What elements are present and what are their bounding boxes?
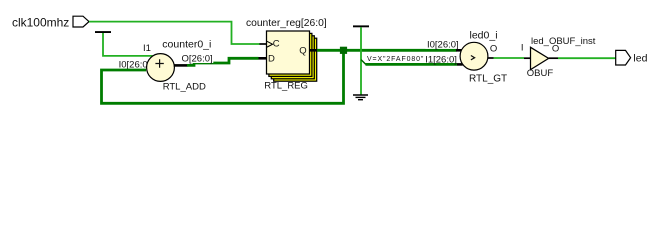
wire O to D (187, 58, 259, 65)
svg-text:led: led (633, 53, 647, 65)
svg-text:RTL_REG: RTL_REG (264, 81, 308, 92)
pin stub I0 comparator (456, 49, 462, 52)
wire constant bus to I1 (366, 63, 458, 66)
svg-text:I: I (521, 43, 524, 54)
input port clk100mhz (73, 16, 89, 27)
svg-text:C: C (273, 38, 280, 49)
svg-text:led_OBUF_inst: led_OBUF_inst (531, 36, 596, 47)
pin stub O adder (174, 64, 188, 67)
svg-text:led0_i: led0_i (470, 30, 498, 42)
greater-than mark (471, 56, 475, 60)
svg-text:RTL_ADD: RTL_ADD (163, 81, 206, 92)
buffer led_OBUF_inst OBUF (531, 47, 549, 69)
value label V=X"2FAF080" (366, 55, 426, 63)
svg-text:O: O (490, 44, 497, 55)
svg-text:I1: I1 (143, 43, 151, 54)
wire feedback bus (102, 50, 344, 103)
svg-text:OBUF: OBUF (527, 68, 554, 79)
comparator led0_i RTL_GT (460, 42, 488, 70)
pin stub O obuf (549, 57, 558, 59)
register counter_reg stack (267, 31, 317, 81)
svg-text:counter_reg[26:0]: counter_reg[26:0] (246, 18, 327, 29)
svg-text:I1[26:0]: I1[26:0] (425, 54, 457, 65)
wire led net (494, 57, 525, 59)
output port led (616, 50, 631, 65)
pin stub O comparator (488, 57, 494, 59)
svg-text:O[26:0]: O[26:0] (182, 53, 213, 64)
wire led out (558, 57, 616, 59)
svg-text:V=X"2FAF080": V=X"2FAF080" (367, 56, 424, 63)
wire Q bus (317, 49, 457, 52)
net label I0[26:0] (117, 60, 152, 71)
pin stub I1 comparator (457, 63, 463, 66)
power VCC const (353, 25, 369, 27)
power VCC const1 (95, 31, 111, 33)
svg-text:D: D (268, 53, 275, 64)
ground (353, 95, 368, 100)
pin stub D (259, 57, 267, 60)
svg-text:Q: Q (299, 46, 306, 57)
svg-text:clk100mhz: clk100mhz (12, 15, 69, 29)
svg-text:counter0_i: counter0_i (162, 39, 211, 51)
pin stub I obuf (524, 57, 531, 59)
bus tap diagonal (361, 60, 366, 65)
pin stub C (260, 43, 267, 45)
net label I0[26:0] comparator (426, 40, 459, 51)
junction (340, 47, 347, 54)
clock pin triangle (267, 41, 273, 47)
svg-text:I0[26:0]: I0[26:0] (427, 40, 459, 51)
plus sign (155, 59, 163, 67)
wire const1 vertical (103, 33, 153, 56)
svg-text:O: O (552, 43, 559, 54)
pin stub Q (310, 49, 318, 52)
wire clk net (89, 22, 260, 44)
adder counter0_i RTL_ADD (147, 54, 175, 82)
net label O[26:0] (180, 53, 213, 64)
net label I1[26:0] comparator (424, 54, 459, 66)
svg-text:RTL_GT: RTL_GT (469, 74, 507, 85)
wire const vertical (360, 27, 362, 94)
